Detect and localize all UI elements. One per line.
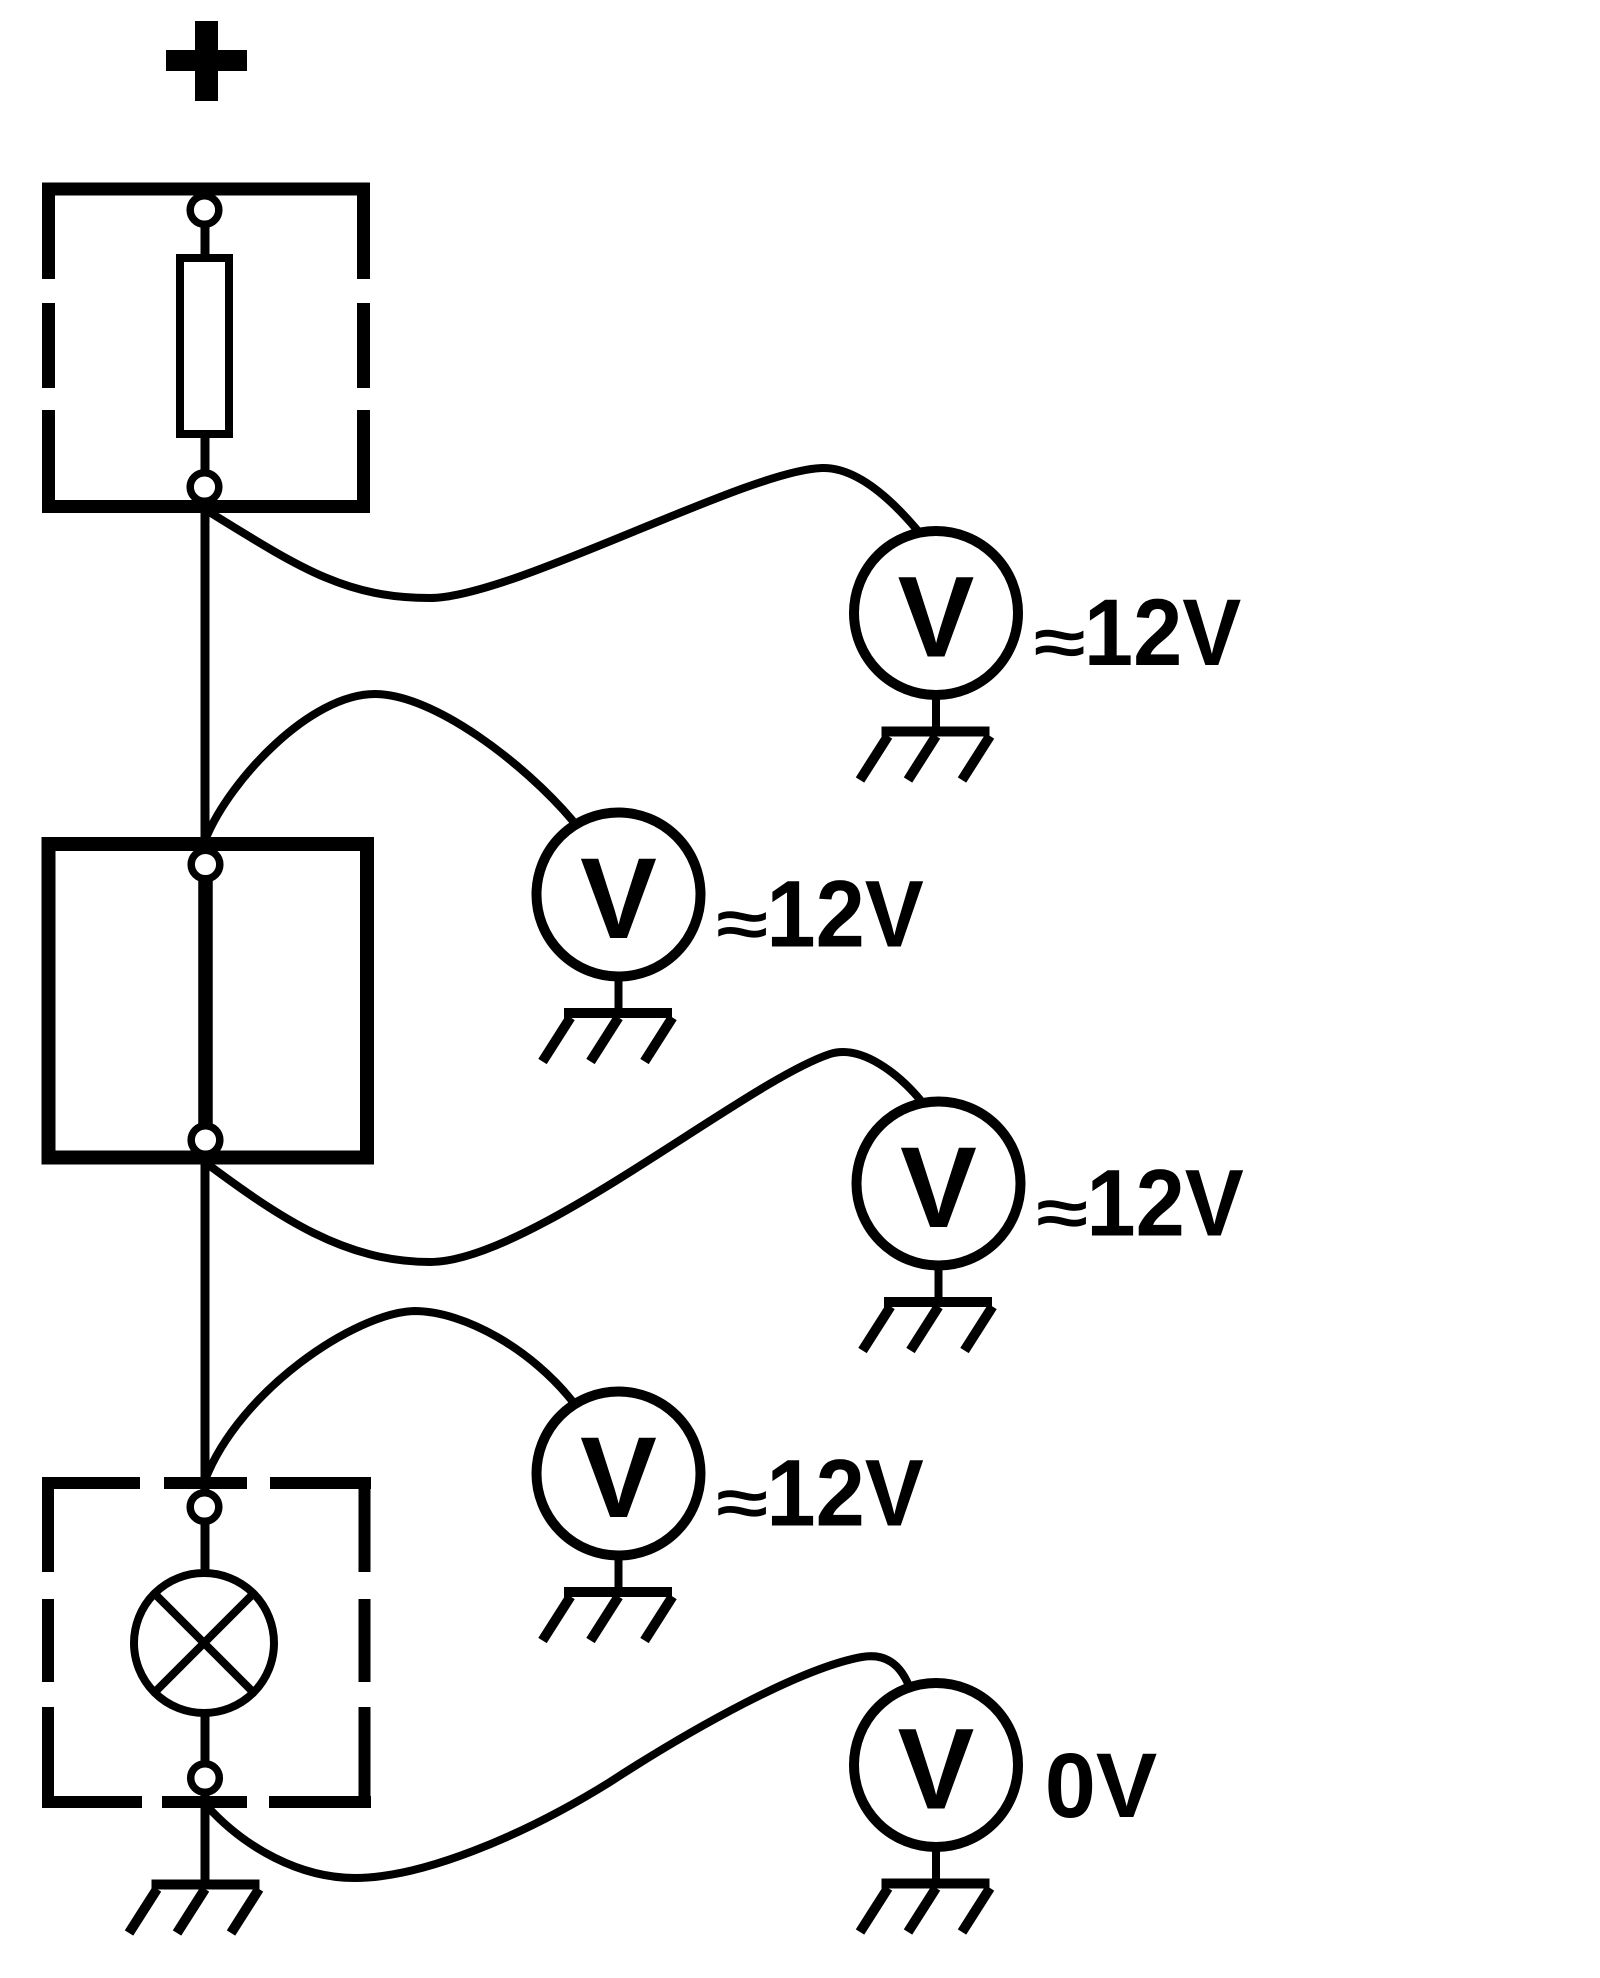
svg-text:≈: ≈ <box>1036 1176 1088 1251</box>
voltmeter V2 <box>537 813 701 977</box>
plus terminal + <box>166 21 247 101</box>
wire V1 to ground <box>932 695 940 732</box>
wire curve node B to voltmeter V2 <box>206 694 573 838</box>
label approx 12V (V1) <box>1034 580 1242 685</box>
label approx 12V (V2) <box>716 862 924 967</box>
svg-text:V: V <box>900 1124 977 1252</box>
terminal circle switch top <box>191 850 220 879</box>
svg-text:≈: ≈ <box>716 887 768 962</box>
voltmeter V3 <box>857 1102 1021 1266</box>
ground (voltmeter V4) <box>543 1592 673 1641</box>
lamp box (dashed enclosure) <box>42 1477 371 1808</box>
wire switch box to lamp box <box>201 1157 210 1490</box>
label approx 12V (V4) <box>716 1441 924 1546</box>
svg-text:V: V <box>580 1414 657 1542</box>
svg-text:≈: ≈ <box>716 1466 768 1541</box>
terminal circle lamp bottom <box>191 1764 220 1793</box>
label approx 12V (V3) <box>1036 1151 1244 1256</box>
wire V4 to ground <box>615 1556 623 1593</box>
wire <box>201 1521 210 1575</box>
ground (voltmeter V1) <box>860 732 990 781</box>
svg-text:12V: 12V <box>766 1441 923 1546</box>
ground (main, below lamp box) <box>129 1885 260 1934</box>
wire node E to ground <box>201 1792 210 1880</box>
switch box <box>49 844 368 1158</box>
wire V3 to ground <box>935 1266 943 1303</box>
ground (voltmeter V5) <box>860 1884 990 1933</box>
ground (voltmeter V2) <box>543 1013 673 1062</box>
svg-text:V: V <box>898 1706 975 1834</box>
ground (voltmeter V3) <box>863 1302 993 1351</box>
svg-text:0V: 0V <box>1045 1735 1158 1837</box>
voltmeter V5 <box>854 1683 1018 1847</box>
svg-text:12V: 12V <box>1084 580 1241 685</box>
terminal circle fuse bottom <box>190 473 219 502</box>
wire curve node D to voltmeter V4 <box>205 1311 573 1480</box>
svg-text:V: V <box>580 835 657 963</box>
wire curve node E to voltmeter V5 <box>207 1656 909 1878</box>
wire curve node C to voltmeter V3 <box>206 1052 922 1262</box>
terminal circle lamp top <box>190 1493 219 1522</box>
lamp E1 <box>134 1573 274 1713</box>
voltmeter V1 <box>854 531 1018 695</box>
wire V2 to ground <box>615 977 623 1014</box>
wire node A to switch box <box>201 501 210 848</box>
wire <box>201 1713 210 1764</box>
svg-text:12V: 12V <box>1086 1151 1243 1256</box>
switch S1 closed contact bar <box>198 879 213 1125</box>
terminal circle switch bottom <box>191 1126 220 1155</box>
wire curve node A to voltmeter V1 <box>206 468 918 598</box>
wire <box>201 224 210 258</box>
fuse box (dashed enclosure) <box>42 183 370 514</box>
fuse F1 <box>180 258 229 434</box>
svg-text:12V: 12V <box>766 862 923 967</box>
voltmeter V4 <box>537 1392 701 1556</box>
svg-text:≈: ≈ <box>1034 605 1086 680</box>
wire V5 to ground <box>932 1847 940 1884</box>
svg-text:V: V <box>898 554 975 682</box>
terminal circle fuse top <box>190 196 219 225</box>
wire <box>201 434 210 470</box>
